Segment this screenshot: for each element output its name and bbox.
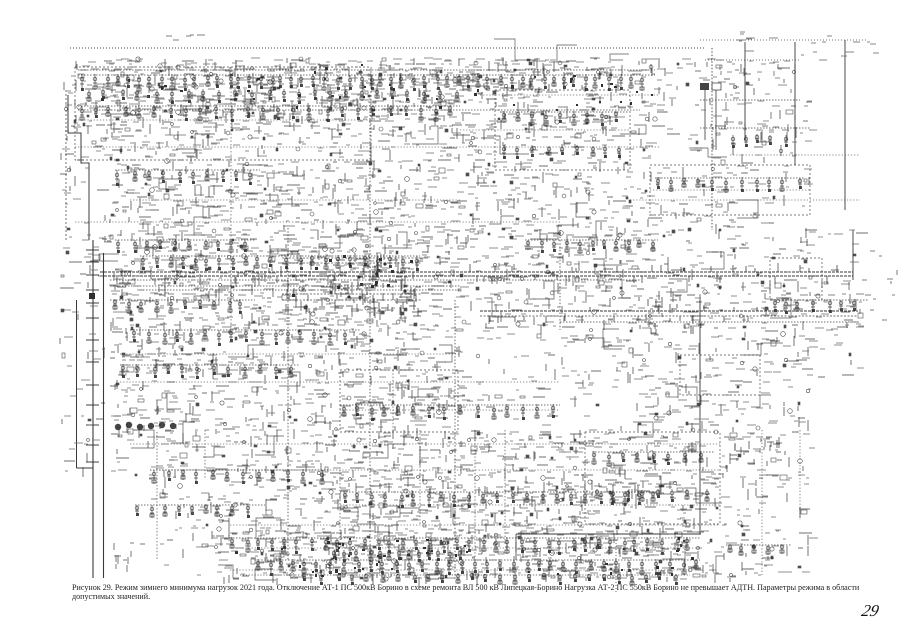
wire cluster r6c7: [413, 330, 464, 383]
wire cluster r0c4: [261, 57, 316, 87]
wire cluster r3c6: [362, 181, 412, 231]
wire cluster r7c2: [160, 382, 215, 429]
wire cluster r3c12: [660, 181, 713, 231]
wire cluster r8c3: [211, 430, 264, 485]
substation top-right block: [695, 62, 812, 150]
wire cluster r0c9: [511, 58, 557, 86]
wire cluster r5c3: [210, 283, 265, 329]
wire cluster r7c14: [761, 380, 811, 431]
substation row enclosure3 a: [592, 446, 714, 467]
wire cluster r8c13: [711, 430, 768, 488]
wire cluster r1c3: [212, 79, 263, 134]
wire cluster r8c5: [310, 430, 365, 481]
wire cluster r6c3: [210, 330, 265, 379]
wire vertical trunk F: [852, 230, 854, 280]
wire cluster r9c6: [362, 481, 415, 535]
wire cluster r2c12: [663, 134, 707, 177]
wire cluster r10c12: [660, 531, 716, 582]
substation row right mid: [770, 294, 868, 314]
wire cluster r4c9: [510, 230, 563, 281]
wire cluster r6c14: [762, 331, 818, 375]
substation row lowleft extra: [135, 499, 265, 518]
wire cluster r9c10: [559, 480, 617, 527]
wire cluster r2c6: [361, 131, 419, 185]
wire cluster r0c3: [209, 58, 265, 84]
wire cluster r6c6: [360, 331, 416, 390]
wire cluster r5c12: [661, 281, 713, 328]
wire cluster r1c13: [710, 82, 766, 131]
wire vertical feeders lower: [157, 370, 505, 560]
wire cluster r10c14: [762, 530, 818, 572]
wire cluster r0c0: [71, 61, 115, 78]
box station enclosure 3: [585, 432, 720, 524]
substation row top band 3: [87, 84, 459, 105]
bus left vertical feeder: [77, 240, 104, 578]
substation row right upper: [655, 172, 805, 193]
wire cluster r8c14: [763, 432, 815, 480]
node dark terminal row: [115, 422, 176, 430]
wire cluster r5c5: [310, 280, 366, 329]
wire top dotted bus: [70, 47, 705, 49]
wire cluster r4c15: [811, 230, 868, 276]
wire cluster r0c2: [158, 59, 213, 90]
wire cluster r2c7: [411, 131, 461, 180]
wire cluster r5c10: [562, 281, 613, 330]
wire cluster r1c6: [360, 80, 413, 137]
wire cluster r5c9: [511, 280, 567, 334]
wire cluster r1c7: [410, 78, 466, 139]
wire cluster r4c8: [460, 230, 519, 284]
wire vertical dotted right-low a: [761, 430, 763, 575]
node bus knot central: [281, 252, 428, 319]
wire cluster r3c2: [160, 181, 215, 229]
wire cluster r7c10: [570, 380, 599, 416]
wire cluster r0c12: [665, 59, 716, 78]
wire cluster r2c8: [460, 132, 514, 186]
wire cluster r1c0: [64, 80, 117, 134]
substation row top band 2: [78, 100, 460, 122]
wire cluster r3c9: [510, 181, 564, 240]
wire cluster r7c13: [710, 381, 763, 432]
wire cluster r8c1: [111, 430, 165, 479]
wire cluster r9c5: [312, 480, 364, 534]
wire cluster r9c14: [762, 480, 810, 518]
wire cluster r10c6: [360, 531, 416, 585]
wire cluster r2c13: [711, 133, 763, 177]
wire cluster r5c0: [60, 282, 116, 320]
wire cluster r7c6: [360, 380, 419, 435]
substation row mid-left 2: [115, 234, 255, 253]
wire cluster r8c2: [161, 430, 216, 488]
wire cluster r1c1: [110, 81, 165, 134]
wire cluster r3c0: [62, 182, 109, 230]
wire cluster r2c10: [560, 130, 615, 179]
substation row below-bus 1: [110, 294, 255, 314]
node bottom-left tap: [114, 543, 145, 572]
wire cluster r7c3: [210, 382, 263, 434]
wire cluster r1c5: [310, 80, 364, 140]
wire bottom band lower dotline: [240, 574, 690, 576]
wire cluster r3c14: [761, 184, 813, 238]
wire cluster r2c11: [612, 131, 661, 182]
wire cluster r0c13: [713, 61, 762, 79]
wire cluster r6c5: [308, 330, 365, 380]
substation row bottom dense: [332, 544, 462, 564]
wire cluster r10c13: [710, 530, 763, 583]
wire cluster r0c8: [463, 58, 515, 84]
wire cluster r4c1: [110, 230, 169, 287]
wire cluster r8c9: [510, 432, 565, 484]
wire cluster r0c14: [761, 61, 796, 83]
wire cluster r1c10: [562, 82, 614, 136]
wire cluster r6c15: [818, 330, 864, 377]
wire cluster r1c4: [260, 80, 318, 131]
wire cluster r7c12: [662, 382, 714, 431]
wire cluster r9c13: [711, 480, 768, 527]
wire cluster r1c14: [763, 85, 812, 138]
substation row mid-left 1: [115, 164, 260, 186]
wire left step line: [68, 95, 89, 240]
wire cluster r4c11: [612, 231, 659, 278]
wire cluster r6c1: [110, 332, 166, 379]
wire cluster r6c8: [460, 331, 515, 377]
wire cluster r4c5: [310, 230, 368, 290]
wire cluster r1c11: [610, 80, 667, 135]
wire cluster r4c14: [764, 230, 817, 279]
wire cluster r7c5: [308, 380, 366, 430]
wire cluster r8c11: [610, 430, 668, 479]
wire vertical trunk E: [699, 300, 701, 534]
wire cluster r7c0: [62, 380, 105, 425]
wire cluster r9c2: [160, 484, 213, 528]
page number: [860, 601, 881, 621]
box station enclosure 4: [340, 370, 458, 432]
node top band breaker specks: [101, 64, 653, 111]
wire cluster r4c10: [559, 230, 613, 286]
wire cluster r7c4: [260, 380, 315, 439]
wire cluster r10c8: [459, 530, 516, 585]
wire cluster r4c2: [160, 231, 216, 288]
wire cluster r6c9: [512, 334, 555, 380]
wire cluster r9c4: [260, 480, 312, 530]
wire cluster r4c7: [415, 230, 469, 279]
wire cluster r8c10: [562, 430, 615, 485]
substation row low 2: [340, 486, 660, 508]
wire vertical dotted col: [230, 67, 232, 330]
caption: [72, 583, 868, 601]
wire cluster r5c11: [610, 281, 662, 332]
wire cluster r3c8: [468, 181, 515, 232]
wire cluster r8c7: [411, 431, 466, 482]
wire cluster r8c8: [460, 430, 516, 480]
wire cluster r4c6: [361, 230, 415, 289]
wire cluster r10c10: [560, 530, 621, 581]
bus main 500kV horizontal: [100, 264, 853, 290]
wire cluster r4c0: [61, 235, 112, 277]
wire cluster r5c6: [363, 280, 416, 336]
wire cluster r6c12: [664, 342, 713, 381]
wire bottom horizontal link: [516, 534, 701, 560]
wire cluster r5c7: [412, 281, 465, 331]
wire cluster r9c8: [461, 481, 516, 534]
wire cluster r8c4: [261, 430, 315, 479]
wire cluster r3c11: [611, 185, 662, 236]
substation row enclosure2 a: [500, 106, 628, 127]
bus secondary horizontal: [480, 304, 858, 323]
node bottom band breaker specks: [235, 537, 694, 577]
wire cluster r9c7: [411, 480, 467, 529]
wire cluster r5c14: [761, 280, 809, 338]
wire cluster r2c1: [110, 130, 164, 188]
wire cluster r6c10: [561, 329, 612, 381]
wire cluster r3c3: [210, 181, 263, 230]
wire cluster r10c7: [410, 530, 465, 588]
substation row enclosure3 b: [595, 484, 709, 503]
wire cluster r4c12: [661, 230, 718, 280]
wire cluster r0c6: [364, 58, 414, 87]
substation row tr small: [731, 129, 789, 148]
box station enclosure 5: [680, 355, 760, 395]
substation row knot: [140, 250, 420, 272]
wire cluster r5c15: [810, 280, 864, 329]
wire cluster r7c9: [513, 381, 558, 425]
substation row upper mid: [525, 234, 658, 254]
wire cluster r10c9: [510, 531, 564, 582]
wire vertical trunk D: [559, 230, 561, 330]
wire cluster r9c9: [511, 481, 565, 533]
wire cluster r6c4: [260, 330, 313, 384]
label top-left title noise: [166, 35, 205, 40]
node cluster right of enclosure: [724, 437, 785, 469]
wire cluster r1c8: [461, 80, 516, 140]
wire cluster r2c2: [162, 131, 215, 179]
wire cluster r4c13: [713, 230, 762, 282]
wire cluster r8c6: [360, 430, 415, 487]
wire dotted drop: [615, 540, 617, 592]
substation row enclosure2 b: [502, 140, 621, 159]
wire cluster r3c10: [560, 182, 614, 230]
substation row top band 1: [78, 69, 655, 92]
wire cluster r0c7: [410, 58, 467, 83]
node bus knot right: [639, 296, 709, 334]
wire cluster r0c1: [113, 57, 166, 84]
substation row low 1: [150, 464, 330, 485]
wire cluster r3c13: [715, 183, 766, 234]
wire cluster r7c11: [612, 380, 665, 431]
wire cluster r6c13: [710, 332, 763, 376]
wire cluster r5c13: [710, 282, 759, 328]
wire cluster r1c9: [510, 80, 568, 137]
box station enclosure 6: [770, 258, 822, 300]
box station enclosure 7: [650, 165, 810, 215]
substation row bottom 1: [230, 532, 700, 555]
wire cluster r5c2: [160, 280, 212, 339]
node bottom band dark cluster: [338, 539, 466, 578]
wire cluster r1c2: [160, 84, 220, 135]
wire cluster r2c4: [261, 133, 310, 187]
wire cluster r6c0: [60, 334, 105, 366]
wire cluster r9c12: [660, 480, 716, 538]
wire cluster r3c5: [310, 179, 367, 235]
wire cluster r10c5: [311, 530, 365, 583]
substation row bottom 3: [302, 568, 682, 586]
wire top band rail b: [78, 109, 640, 111]
wire cluster r2c14: [761, 130, 817, 185]
wire dotted interconnections: [75, 95, 860, 570]
substation row mid 1: [120, 360, 300, 379]
wire cluster r0c5: [311, 61, 363, 84]
wire cluster r5c4: [260, 280, 317, 326]
substation row below-bus 2: [130, 324, 360, 346]
wire vertical dotted right-low b: [799, 430, 801, 520]
wire cluster r4c3: [210, 229, 264, 287]
wire cluster r7c8: [462, 382, 503, 418]
substation row mid 2: [340, 399, 560, 421]
wire left margin dashed: [65, 90, 67, 240]
wire cluster r0c11: [610, 58, 665, 83]
substation row bottom right: [726, 540, 792, 556]
wire cluster r2c9: [511, 132, 566, 183]
wire cluster r10c3: [212, 528, 264, 584]
wire cluster r2c0: [60, 131, 113, 186]
wire cluster r3c1: [110, 183, 162, 236]
wire staircase runs: [99, 39, 791, 580]
node top-right feeders: [700, 32, 879, 230]
wire cluster r10c11: [610, 530, 665, 579]
wire cluster r2c3: [210, 130, 267, 183]
wire cluster r5c8: [460, 281, 512, 328]
wire cluster r6c11: [612, 330, 667, 383]
wire cluster r2c5: [310, 130, 367, 188]
wire cluster r7c1: [110, 380, 166, 437]
wire cluster r3c4: [260, 184, 312, 230]
wire cluster r6c2: [160, 330, 217, 379]
wire cluster r0c10: [558, 58, 611, 86]
wire cluster r7c7: [410, 381, 467, 439]
wire cluster r5c1: [111, 280, 166, 336]
box station enclosure 1: [75, 67, 371, 160]
substation row bottom 2: [255, 554, 700, 576]
wire cluster r8c0: [64, 439, 100, 477]
wire cluster r10c4: [260, 530, 313, 585]
wire vertical trunk C: [454, 300, 456, 580]
wire cluster r4c4: [262, 231, 318, 283]
wire cluster r3c7: [411, 180, 468, 231]
wire top band rail a: [78, 69, 655, 71]
wire cluster r1c12: [661, 83, 706, 129]
wire vertical trunk A: [287, 228, 289, 560]
box station enclosure 2: [495, 90, 630, 170]
wire vertical trunk B: [369, 95, 371, 580]
wire cluster r9c3: [211, 482, 264, 536]
wire cluster r10c2: [160, 530, 214, 575]
wire cluster r8c12: [660, 428, 714, 480]
wire cluster r9c11: [610, 481, 667, 535]
wire right-edge stubs: [860, 251, 897, 320]
